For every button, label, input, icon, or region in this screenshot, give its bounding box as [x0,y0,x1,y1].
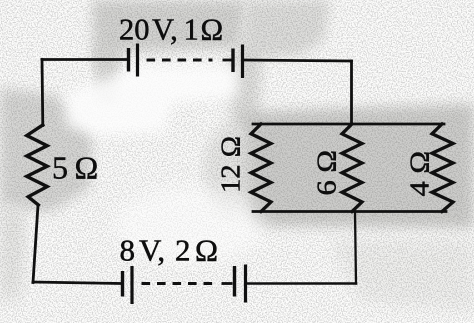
gray scan blotch: parallel-resistor region [240,104,474,228]
gray scan blotch: top around title [92,0,246,68]
battery B2 cell1 tall plate [130,266,133,304]
gray patch behind 5-ohm label [40,130,84,190]
battery B1 cell1 tall plate [136,44,139,77]
battery B1 cell2 tall plate [241,45,244,79]
battery B2 cell1 short plate [121,271,124,297]
battery B2 dashed link [142,282,213,285]
battery B2 cell2 tall plate (8V) [244,265,247,303]
battery B1 stub wire [223,59,232,62]
gray halo around 12-ohm label [204,124,256,216]
gray scan blotch: left lower tail [0,205,26,300]
resistor R1 5-ohm zigzag [27,125,47,205]
gray scan blotch: top-left lobe [94,48,120,104]
resistor R3 6-ohm zigzag [342,124,362,212]
wire top-right horizontal [244,60,352,61]
resistor R4 4-ohm zigzag [432,124,453,212]
white scan cloud bottom-middle [115,187,265,263]
wire left vertical upper [41,60,45,126]
svg-text:20V,1Ω: 20V,1Ω [119,13,223,47]
white scan cloud below top battery [66,66,238,136]
wire left vertical lower [33,205,38,283]
node bottom bus [253,210,446,213]
resistor R2 12-ohm zigzag [251,124,271,212]
gray scan blotch: top-right arm [228,0,330,130]
wire bottom-left horizontal [33,282,121,284]
battery B2 stub wire [222,282,233,285]
svg-text:5Ω: 5Ω [52,150,98,186]
gray scan blotch: left column around 5-ohm [0,88,92,212]
wire bottom-right horizontal [248,282,357,285]
battery B1 dashed link [147,59,213,62]
node top bus [253,123,444,126]
svg-text:4 Ω: 4 Ω [404,151,435,197]
battery B2 cell2 short plate [233,266,236,297]
wire mid vertical drop to bottom [355,212,356,284]
battery B1 cell2 short plate [231,49,234,73]
gray scan blotch: lighter below resistor bank [330,238,474,310]
battery B1 cell1 short plate (20V) [127,48,130,72]
wire top-left horizontal [42,58,127,61]
svg-text:6 Ω: 6 Ω [311,150,342,196]
wire right vertical drop [350,61,353,124]
svg-text:12 Ω: 12 Ω [215,136,246,193]
